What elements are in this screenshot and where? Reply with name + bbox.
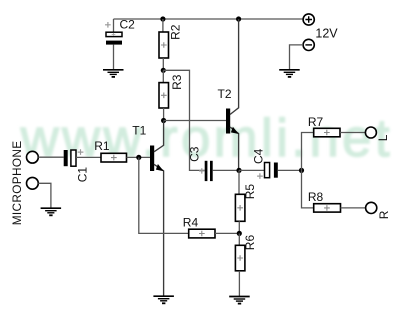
wire C4 to output node <box>278 169 302 171</box>
terminal R <box>366 202 377 213</box>
ground under mic <box>41 208 62 215</box>
svg-text:R8: R8 <box>308 190 324 204</box>
node dot output split <box>299 168 304 173</box>
wire R6 to ground <box>238 271 240 297</box>
resistor R1 <box>101 153 127 162</box>
node dot T1 collector / T2 base <box>161 118 166 123</box>
transistor T1 <box>150 121 164 297</box>
label L <box>376 134 390 141</box>
svg-text:R6: R6 <box>243 235 257 251</box>
svg-text:R1: R1 <box>94 139 110 153</box>
transistor T2 <box>226 19 239 170</box>
wire main node to C4 <box>239 169 265 171</box>
svg-text:T1: T1 <box>132 123 146 137</box>
wire R1 to T1 base <box>127 156 151 158</box>
node dot T1 base <box>136 155 141 160</box>
label 12V <box>315 26 338 40</box>
svg-text:MICROPHONE: MICROPHONE <box>10 141 24 226</box>
label C1 <box>76 167 90 183</box>
wire R8 to R terminal <box>341 207 366 209</box>
terminal -12V <box>303 39 314 50</box>
ground under R6 <box>229 297 250 304</box>
ground under minus terminal <box>279 70 300 77</box>
svg-text:L: L <box>376 134 390 141</box>
terminal L <box>365 127 376 138</box>
watermark www.romli.net <box>20 109 393 168</box>
wire mic bottom to ground <box>38 183 51 208</box>
label R6 <box>243 235 257 251</box>
node dot T2 emitter main node <box>236 168 241 173</box>
wire feedback T1 base to R4 <box>139 157 189 233</box>
terminal mic top <box>27 151 39 163</box>
label R3 <box>170 74 184 90</box>
terminal +12V <box>303 14 314 25</box>
resistor R8 <box>314 204 341 212</box>
label R1 <box>94 139 110 153</box>
svg-text:C2: C2 <box>120 18 136 32</box>
svg-text:R3: R3 <box>170 74 184 90</box>
label R4 <box>183 215 199 229</box>
label T2 <box>218 87 232 101</box>
capacitor C3 <box>199 161 213 181</box>
node dot rail/R2 <box>160 16 165 21</box>
label MICROPHONE <box>10 141 24 226</box>
resistor R2 <box>159 32 169 58</box>
ground under C2 <box>103 70 124 77</box>
capacitor C1 <box>64 149 84 166</box>
svg-text:R: R <box>377 210 391 219</box>
label C4 <box>252 148 266 164</box>
wire C3 to main node <box>213 169 239 171</box>
terminal mic bottom <box>27 177 39 189</box>
wire R2 to node <box>162 58 164 70</box>
wire C1 to R1 <box>76 156 101 158</box>
resistor R7 <box>314 128 340 137</box>
wire top supply rail <box>114 18 304 20</box>
svg-text:R4: R4 <box>183 215 199 229</box>
label R7 <box>308 115 324 129</box>
wire T1 collector node to T2 base <box>164 120 226 122</box>
label R2 <box>169 24 183 40</box>
label R <box>377 210 391 219</box>
label R8 <box>308 190 324 204</box>
svg-text:T2: T2 <box>218 87 232 101</box>
wire minus terminal to ground <box>290 45 304 70</box>
svg-text:C3: C3 <box>188 146 202 162</box>
resistor R4 <box>189 229 215 238</box>
wire node to R6 <box>238 233 240 245</box>
wire bootstrap node to C3 <box>163 70 204 170</box>
resistor R6 <box>235 245 245 270</box>
resistor R3 <box>159 83 169 108</box>
svg-text:R2: R2 <box>169 24 183 40</box>
wire R3 to T1 collector node <box>163 108 165 121</box>
svg-text:C4: C4 <box>252 148 266 164</box>
wire R4 to node <box>215 232 239 234</box>
wire node to R3 <box>162 70 164 82</box>
svg-text:12V: 12V <box>315 26 338 40</box>
wire output node to R8 <box>302 170 314 208</box>
wire R5 to node <box>238 221 240 233</box>
node dot R4/R5/R6 <box>237 231 242 236</box>
label C3 <box>188 146 202 162</box>
label R5 <box>243 184 257 200</box>
svg-text:R5: R5 <box>243 184 257 200</box>
wire output node to R7 <box>302 133 314 171</box>
wire R7 to L terminal <box>340 132 365 134</box>
ground under T1 emitter <box>153 296 174 303</box>
resistor R5 <box>235 194 245 221</box>
capacitor C4 <box>257 163 278 179</box>
node dot R2/R3 junction <box>161 68 166 73</box>
node dot rail/T2 collector <box>236 16 241 21</box>
capacitor C2 <box>105 18 135 70</box>
label T1 <box>132 123 146 137</box>
wire main node to R5 <box>238 170 240 194</box>
svg-text:C1: C1 <box>76 167 90 183</box>
wire mic top to C1 <box>38 156 63 158</box>
wire rail to R2 <box>162 19 164 32</box>
svg-text:R7: R7 <box>308 115 324 129</box>
